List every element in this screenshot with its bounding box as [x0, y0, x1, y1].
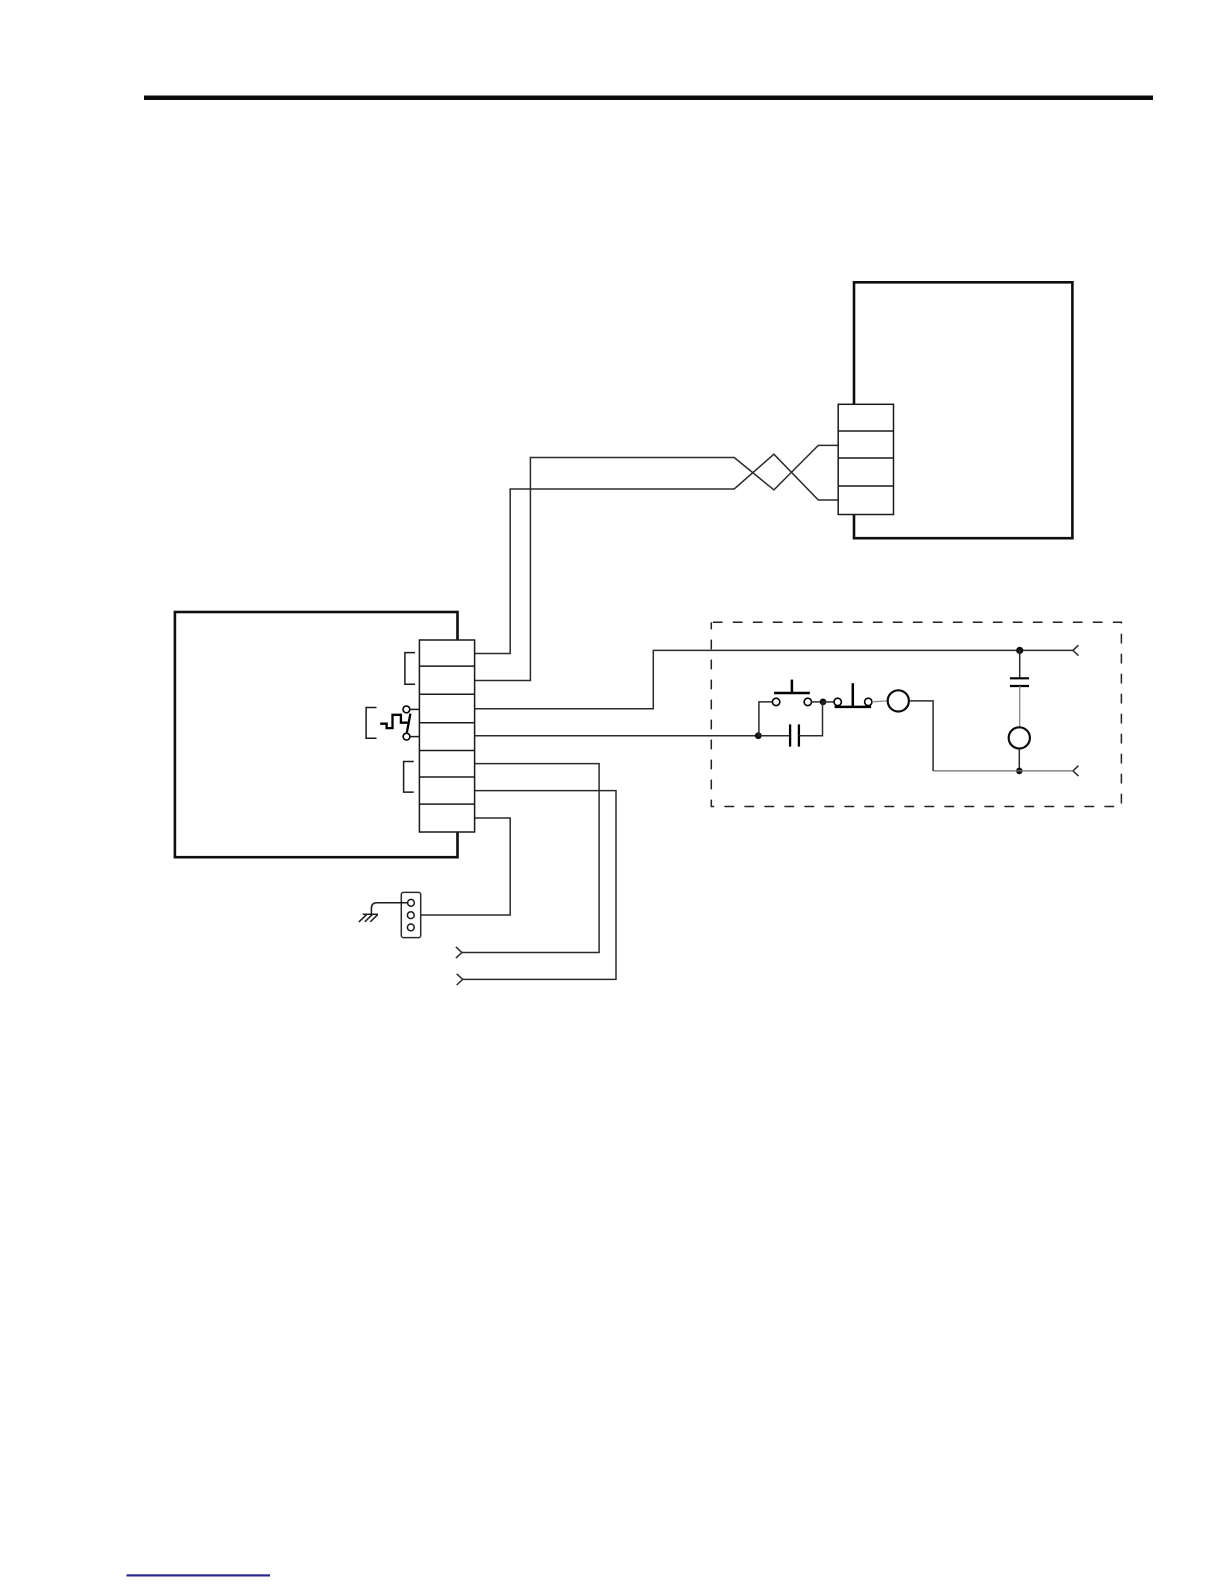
left unit box	[175, 612, 458, 857]
wire: pin1 to ground	[371, 903, 407, 915]
3-pin connector body	[401, 892, 420, 937]
switch SW1 bottom contact	[403, 733, 410, 740]
wire: twisted pair lower (left connector pin 1 to right connector pin 4)	[475, 454, 839, 653]
wire: mid dot to PB2	[823, 701, 834, 703]
wire: lamp right to bottom rail	[909, 701, 933, 771]
terminal chevron lower wire 2	[457, 974, 463, 985]
3-pin connector pin 3	[407, 924, 414, 931]
lamp circle mid	[888, 690, 909, 711]
junction dot top rail	[1016, 647, 1023, 654]
option box (dashed)	[711, 622, 1121, 806]
bracket (pins 5-6 group)	[404, 762, 414, 793]
junction dot mid	[820, 699, 827, 706]
connector CN2 (4-pin, on main unit box)	[838, 404, 893, 514]
main unit box (top right)	[854, 282, 1072, 538]
wire: lamp to bottom rail	[1018, 749, 1020, 771]
pulse signal icon	[380, 715, 408, 728]
push button PB2 contacts	[834, 698, 841, 705]
wire: twisted pair upper (left connector pin 2 to right connector pin 2)	[475, 445, 839, 680]
bottom rail wire	[933, 770, 1073, 772]
wire: PB1 to node dot	[812, 701, 824, 703]
footer rule (blue)	[127, 1574, 271, 1576]
terminal chevron top right	[1073, 645, 1079, 655]
wire: CN1 pin5 to lower terminal 1	[462, 764, 599, 953]
connector CN1 (7-pin, on left unit box)	[419, 640, 474, 832]
bracket (pins 1-2 group)	[405, 653, 415, 685]
3-pin connector pin 2	[407, 912, 414, 919]
wire: SW1 bottom contact to CN1 pin4	[410, 736, 420, 738]
3-pin connector pin 1	[408, 899, 415, 906]
terminal chevron bottom right	[1073, 766, 1079, 776]
wire: top rail down to capacitor	[1019, 650, 1021, 678]
wire: CN1 pin7 to 3-pin connector middle pin	[414, 818, 510, 915]
wire: CN1 pin3 to option-box top rail	[475, 650, 1073, 708]
junction dot left node	[755, 732, 762, 739]
wire: CN1 pin6 to lower terminal 2	[463, 791, 616, 980]
wire: capacitor C1 to mid dot	[799, 702, 823, 736]
push button PB1 actuator	[774, 692, 810, 695]
capacitor C2 (horizontal plates)	[1010, 677, 1029, 679]
wire: capacitor to lamp (gray)	[1019, 686, 1021, 727]
wire: CN1 pin4 to option-box node	[475, 735, 759, 737]
push button PB2 actuator	[835, 706, 872, 709]
bracket (pins 3-4 group)	[366, 708, 376, 739]
lamp circle right	[1009, 727, 1030, 748]
header rule	[144, 96, 1153, 101]
push button PB1 contacts	[772, 698, 779, 705]
wire: node to capacitor C1	[758, 735, 790, 737]
wire: SW1 top contact to CN1 pin3	[410, 708, 420, 710]
ground symbol	[359, 914, 378, 922]
switch SW1 blade	[407, 714, 411, 733]
capacitor C1 (vertical plates)	[789, 724, 791, 746]
wire: PB2 to lamp (gray)	[872, 701, 888, 702]
switch SW1 top contact	[403, 706, 410, 713]
junction dot bottom rail	[1016, 768, 1023, 775]
terminal chevron lower wire 1	[456, 947, 462, 958]
wire: node up to push buttons	[759, 702, 773, 736]
